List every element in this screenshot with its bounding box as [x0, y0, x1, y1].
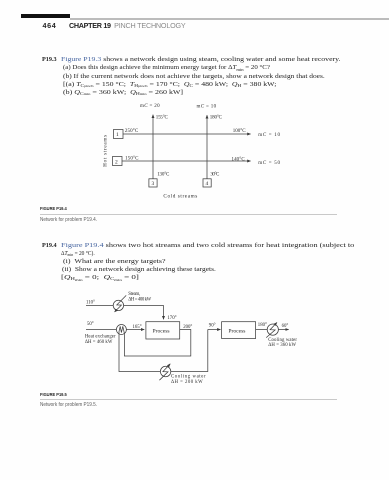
svg-text:130°C: 130°C [157, 173, 170, 178]
svg-text:Hot streams: Hot streams [103, 135, 109, 167]
svg-text:165°: 165° [133, 325, 142, 330]
svg-text:30°C: 30°C [210, 173, 220, 178]
svg-text:180°C: 180°C [210, 116, 223, 121]
svg-text:ΔH = 200 kW: ΔH = 200 kW [171, 380, 203, 385]
svg-text:2: 2 [115, 159, 118, 165]
svg-text:140°C: 140°C [232, 158, 246, 163]
svg-text:Cold streams: Cold streams [163, 194, 197, 200]
svg-text:1: 1 [116, 132, 119, 138]
svg-text:mC = 50: mC = 50 [258, 161, 280, 166]
svg-text:mC = 10: mC = 10 [197, 105, 217, 110]
svg-text:90°: 90° [209, 324, 216, 329]
svg-text:170°: 170° [167, 316, 176, 321]
svg-text:110°: 110° [86, 300, 95, 305]
svg-text:100°C: 100°C [233, 129, 246, 134]
svg-text:mC = 20: mC = 20 [140, 104, 160, 109]
svg-text:mC = 10: mC = 10 [258, 133, 280, 138]
svg-text:Process: Process [228, 329, 245, 335]
svg-text:250°C: 250°C [125, 129, 139, 134]
svg-text:Cooling water: Cooling water [171, 375, 206, 380]
svg-text:3: 3 [152, 181, 155, 187]
svg-text:ΔH = 460 kW: ΔH = 460 kW [85, 340, 113, 345]
svg-text:ΔH = 400 kW: ΔH = 400 kW [128, 297, 151, 302]
svg-text:180°: 180° [258, 323, 267, 328]
svg-text:200°: 200° [183, 325, 192, 330]
svg-text:150°C: 150°C [125, 157, 139, 162]
svg-text:4: 4 [206, 181, 209, 187]
svg-text:60°: 60° [282, 324, 289, 329]
svg-text:Process: Process [153, 329, 170, 335]
svg-text:50°: 50° [87, 322, 94, 327]
svg-text:155°C: 155°C [156, 115, 169, 120]
svg-text:ΔH = 360 kW: ΔH = 360 kW [268, 343, 296, 348]
svg-text:Heat exchanger: Heat exchanger [85, 335, 116, 340]
